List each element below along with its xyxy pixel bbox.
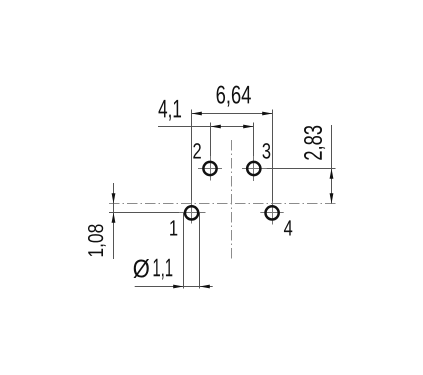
wire: extension line of hole 3 going right for 2,83 dimension: [242, 168, 336, 170]
wire: left extension line of diameter 1,1: [183, 213, 185, 289]
pin number 2: [193, 143, 201, 158]
value label 2,83: [304, 126, 325, 160]
pin number 3: [262, 143, 270, 159]
wire: right extension line of diameter 1,1: [199, 213, 201, 289]
value label 6,64: [217, 86, 251, 107]
wire: 6,64 left arrowhead: [192, 112, 202, 116]
wire: 6,64 dimension line: [192, 113, 273, 115]
value label diameter symbol: [134, 259, 150, 278]
node: vertical dash-dot centerline: [231, 140, 233, 260]
wire: diameter 1,1 dimension line with left leader: [135, 286, 213, 288]
wire: diameter 1,1 left arrowhead pointing right: [173, 285, 183, 289]
wire: 2,83 top arrowhead: [330, 169, 334, 179]
wire: extension line from hole 1 up to 6,64 dimension: [191, 110, 193, 224]
wire: 1,08 lower arrowhead pointing up: [112, 213, 116, 223]
wire: 4,1 right arrowhead: [243, 125, 253, 129]
wire: 2,83 bottom arrowhead: [330, 193, 334, 203]
wire: 6,64 right arrowhead: [262, 112, 272, 116]
value label 1,08: [88, 224, 106, 256]
wire: extension line from hole 2 up to 4,1 dimension: [210, 123, 212, 181]
hole pad 2: [198, 156, 222, 181]
hole pad 1: [179, 200, 206, 223]
node: horizontal dash-dot centerline: [109, 203, 336, 205]
pin number 4: [284, 220, 292, 235]
wire: 1,08 upper arrowhead pointing down: [112, 193, 116, 203]
value label 4,1: [159, 100, 182, 121]
wire: extension line from hole 3 up to 4,1 dimension: [253, 123, 255, 182]
wire: diameter 1,1 right arrowhead pointing left: [200, 285, 210, 289]
wire: 4,1 dimension line with left leader: [158, 126, 254, 128]
hole pad 4: [260, 201, 283, 224]
hole pad 3: [242, 156, 267, 181]
wire: extension line of hole 1 row going left for 1,08 dimension: [109, 212, 206, 214]
value label 1,1: [154, 259, 173, 280]
wire: 2,83 dimension line: [331, 125, 333, 204]
wire: extension line from hole 4 up to 6,64 dimension: [272, 110, 274, 225]
wire: 4,1 left arrowhead: [211, 125, 221, 129]
pin number 1: [170, 220, 177, 235]
wire: 1,08 dimension line: [113, 183, 115, 259]
